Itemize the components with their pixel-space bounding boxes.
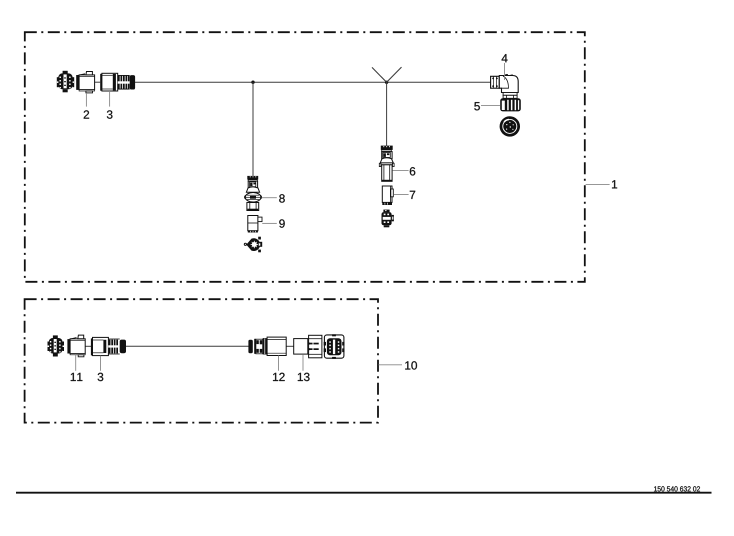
- connector 4 collars: [503, 93, 517, 99]
- wire branch down to 8/9: [252, 82, 254, 176]
- leader 1: [586, 183, 610, 185]
- leader 6: [393, 170, 409, 172]
- label 2: [84, 110, 89, 118]
- connector face (mate of 13): [324, 334, 345, 359]
- connector stack 6: cap: [381, 146, 393, 152]
- label 8: [279, 194, 285, 202]
- wire main harness (top): [135, 81, 491, 83]
- wire between connector 2 and connector 3: [94, 81, 100, 83]
- wire main (bottom box): [126, 345, 249, 347]
- label 10: [405, 361, 417, 369]
- leader 11: [75, 355, 77, 371]
- leader 5: [481, 104, 500, 106]
- leader 3 (top): [109, 91, 111, 107]
- leader 13: [302, 354, 304, 371]
- node Y-split: [372, 67, 402, 84]
- connector 4 elbow: left fitting: [491, 76, 500, 88]
- nut 5: [500, 98, 521, 111]
- footer rule: [16, 492, 712, 494]
- connector face (mate of 11): [48, 335, 65, 356]
- label 1: [612, 180, 617, 188]
- connector stack 8: housing: [248, 181, 257, 188]
- ring 8 with flare: [245, 187, 262, 202]
- connector 13 housing: [294, 335, 322, 358]
- connector face under 9: [244, 237, 262, 253]
- label 13: [298, 373, 310, 381]
- connector 4 elbow body: [499, 74, 518, 92]
- label 5: [474, 102, 480, 110]
- connector 12: [248, 337, 286, 355]
- label 4: [502, 54, 508, 62]
- connector stack 8: cap: [247, 176, 258, 181]
- node junction (branch to 8/9): [251, 81, 254, 84]
- cylinder 6 with flare: [379, 158, 394, 182]
- leader 2: [85, 93, 87, 107]
- label 3 (top): [107, 110, 113, 118]
- label 6: [410, 167, 415, 175]
- leader 9: [262, 222, 277, 224]
- leader 3 (bottom): [100, 356, 102, 371]
- connector 9 housing: [248, 216, 262, 233]
- label 9: [279, 219, 284, 227]
- footer part number: [654, 486, 700, 491]
- label 3 (bottom): [98, 373, 104, 381]
- wire branch down to 6/7: [386, 82, 388, 146]
- connector 2 housing: [76, 72, 94, 93]
- leader 10: [379, 364, 403, 366]
- wire link 11 to 3: [85, 345, 91, 347]
- connector face under 7: [382, 210, 394, 228]
- label 7: [410, 191, 415, 199]
- connector stack 6: housing: [382, 152, 392, 159]
- frame box 1 (dash-dot border, top assembly): [25, 32, 585, 282]
- round connector face under 5: [500, 116, 520, 136]
- leader 4: [504, 63, 506, 80]
- label 12: [273, 373, 285, 381]
- leader 8: [262, 197, 277, 199]
- label 11: [71, 373, 83, 381]
- connector 3 (bottom): [91, 337, 126, 355]
- connector face (mate of 2): [57, 71, 74, 92]
- connector 3 (top): [100, 73, 135, 91]
- connector 11 housing: [67, 335, 85, 357]
- connector 7 housing: [382, 186, 393, 205]
- body under ring 8: [247, 203, 259, 211]
- frame box 10 (dash-dot border, bottom assembly): [25, 299, 378, 422]
- leader 7: [394, 194, 409, 196]
- leader 12: [278, 356, 280, 371]
- wire link 12 to 13: [283, 345, 294, 347]
